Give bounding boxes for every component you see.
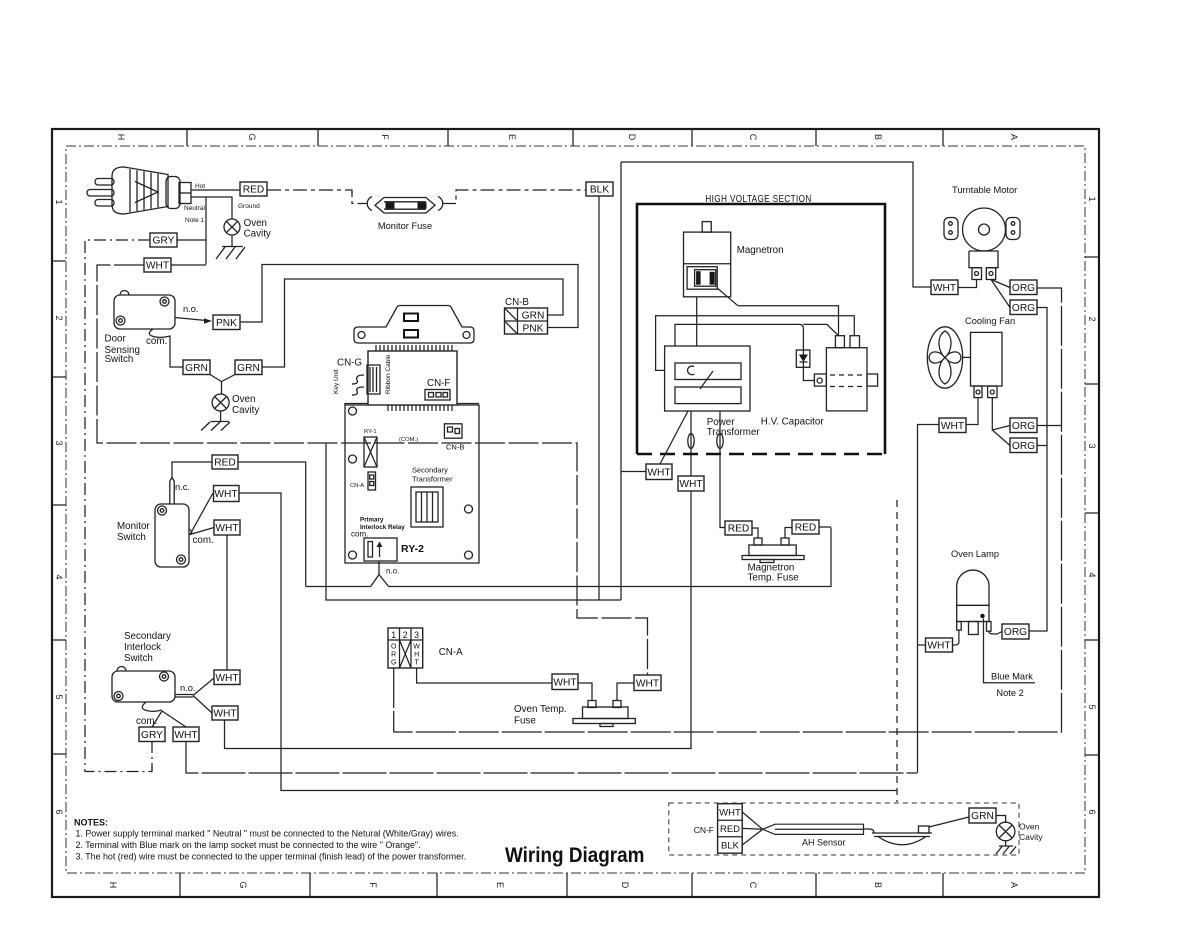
svg-text:(COM.): (COM.) [399,437,418,443]
wire: white rail fan/lamp down to bottom [918,425,940,774]
wire: ground lead from plug [191,197,232,219]
main control PCB [345,404,479,564]
grommet on red lead [717,434,723,449]
svg-text:Cavity: Cavity [232,405,259,416]
svg-text:4: 4 [1087,572,1097,577]
cooling fan M2 [927,316,1015,398]
svg-text:H.V. Capacitor: H.V. Capacitor [761,417,825,428]
svg-text:W: W [413,644,420,651]
svg-text:WHT: WHT [679,479,702,490]
svg-text:Cavity: Cavity [1019,832,1043,842]
svg-text:Transformer: Transformer [707,427,761,438]
wire: PNK to CN-B pink row [240,265,578,328]
wire: diode to capacitor mount tab [803,367,814,380]
svg-text:D: D [620,882,630,889]
svg-text:GRY: GRY [141,730,163,741]
wire: door switch n.o. to PNK with arrow [175,304,212,324]
svg-text:5: 5 [1087,704,1097,709]
svg-text:Wiring Diagram: Wiring Diagram [505,844,644,867]
svg-text:n.o.: n.o. [180,683,196,693]
svg-text:3: 3 [54,440,64,445]
wire: bottom WHT long neutral line [186,742,917,774]
svg-text:2: 2 [54,315,64,320]
svg-text:Switch: Switch [124,653,153,664]
connector CN-A (on PCB) [350,472,376,490]
turntable motor M1 [944,185,1020,280]
power plug P1 [87,167,191,214]
wire: lamp right terminal to ORG [989,631,1002,634]
wire: monitor WHT lower to interlock WHT [226,535,228,670]
svg-text:Ribbon Cable: Ribbon Cable [385,354,392,394]
svg-text:NOTES:: NOTES: [74,818,108,828]
lamp symbol: oven cavity (door) [212,394,259,416]
wire: ORG rail (turntable2 / fan2 / lamp) [1029,308,1047,632]
svg-text:WHT: WHT [174,730,197,741]
wire: neutral drop [205,197,207,265]
svg-text:com.: com. [351,530,368,539]
svg-text:E: E [507,134,517,140]
svg-text:5: 5 [54,694,64,699]
label WHT (interlock lower) [212,706,238,720]
label GRN (right) [235,360,262,375]
svg-text:RED: RED [795,523,817,534]
relay RY-1 [364,429,377,467]
svg-text:CN-B: CN-B [446,443,464,452]
wire: interlock n.o. fan-out [175,678,214,713]
label WHT (oven temp fuse right) [634,675,661,691]
label WHT (interlock upper) [214,670,240,685]
svg-text:Oven: Oven [232,394,255,405]
svg-text:G: G [391,660,396,667]
svg-text:PNK: PNK [523,324,544,335]
svg-text:Secondary: Secondary [412,466,448,475]
label ORG (turntable 1) [1010,280,1037,295]
svg-text:GRN: GRN [185,363,208,374]
svg-text:ORG: ORG [1012,421,1035,432]
wire: WHT to neutral vertical [171,264,206,266]
magnetron temp fuse F3 [742,527,831,584]
ground symbol (top) [216,247,245,260]
svg-text:H: H [108,882,118,889]
magnetron V1 [684,222,784,297]
label PNK [213,315,240,330]
wire: monitor n.c. to RED [172,462,212,478]
grommet on white lead [688,434,694,449]
svg-text:Monitor Fuse: Monitor Fuse [378,221,432,231]
svg-text:3: 3 [1087,443,1097,448]
wire: monitor WHT upper long rail to AH box [239,493,897,791]
svg-text:Cooling Fan: Cooling Fan [965,316,1015,326]
svg-text:Primary: Primary [360,517,384,524]
svg-text:Neutral: Neutral [184,205,206,212]
svg-text:RED: RED [728,524,750,535]
svg-text:F: F [368,882,378,888]
svg-text:A: A [1009,882,1019,888]
svg-text:ORG: ORG [1012,283,1035,294]
wire: RY-2 n.o. junction [371,561,400,587]
label GRN (AH sensor) [969,808,996,823]
svg-text:6: 6 [1087,809,1097,814]
svg-text:1: 1 [1087,196,1097,201]
wire: section dashed vertical [896,500,898,802]
svg-text:n.o.: n.o. [183,304,199,314]
svg-text:CN-F: CN-F [694,825,714,835]
svg-text:Door: Door [105,334,127,345]
svg-text:ORG: ORG [1012,303,1035,314]
svg-text:RY-2: RY-2 [401,543,424,555]
label WHT (cooling fan) [939,418,966,433]
oven lamp LP1 [951,549,999,635]
svg-text:n.c.: n.c. [175,482,190,492]
wire: RED to monitor fuse [267,190,368,204]
wire: n.o. line to monitor RED rail [306,586,371,588]
svg-text:H: H [414,652,419,659]
svg-text:AH Sensor: AH Sensor [802,838,846,848]
svg-text:CN-A: CN-A [439,647,463,658]
svg-text:n.o.: n.o. [386,567,399,576]
svg-text:Blue Mark: Blue Mark [991,672,1033,682]
wire: lamp left terminal to WHT [953,630,959,645]
svg-text:Secondary: Secondary [124,631,171,642]
svg-text:1: 1 [391,630,396,640]
svg-text:CN-A: CN-A [350,483,364,489]
high voltage section enclosure [637,193,885,454]
wire: sensor pan to GRN [929,817,969,827]
ribbon pins upper comb [376,345,452,351]
wire: magnetron filament to capacitor terminal 1 [717,288,838,336]
wire: CN-F fan-in to sensor [742,812,763,845]
svg-text:BLK: BLK [590,185,609,196]
wire: GRN chain to CN-B green row [262,279,563,367]
svg-text:WHT: WHT [214,489,237,500]
svg-text:Oven Temp.: Oven Temp. [514,704,567,715]
label WHT (monitor lower) [214,520,240,535]
svg-text:Note 1: Note 1 [185,217,205,224]
svg-text:Turntable Motor: Turntable Motor [952,185,1017,195]
svg-text:com.: com. [146,336,167,347]
svg-text:GRN: GRN [971,811,994,822]
diode D1 [796,350,810,367]
label WHT (oven temp fuse left) [552,674,578,690]
svg-text:CN-B: CN-B [505,297,529,308]
H.V. capacitor C1 [761,336,878,428]
wire: HV winding to capacitor terminal 2 [656,316,855,371]
wire: interlock lower WHT to transformer primary [225,411,692,749]
label ORG (oven lamp) [1002,624,1029,639]
ground symbol (AH) [996,841,1016,854]
svg-text:RED: RED [720,824,740,835]
keyboard PCB [368,351,457,405]
svg-text:2. Terminal with Blue mark on: 2. Terminal with Blue mark on the lamp s… [76,840,421,850]
svg-text:D: D [627,134,637,141]
secondary interlock switch S3 [112,631,175,702]
svg-text:ORG: ORG [1012,441,1035,452]
svg-text:4: 4 [54,574,64,579]
wire: fan terminals [966,398,1010,446]
svg-text:C: C [748,134,758,141]
wire: door switch com hook down [146,329,183,367]
svg-text:3. The hot (red) wire must be: 3. The hot (red) wire must be connected … [76,852,467,862]
label WHT (monitor upper) [214,486,240,502]
connector CN-A (wire table) [388,628,463,668]
svg-text:WHT: WHT [719,808,741,819]
svg-text:Transformer: Transformer [412,475,453,484]
label RED (hot wire) [240,182,267,196]
ground symbol (door) [201,422,230,431]
svg-text:CN-G: CN-G [337,358,362,369]
svg-text:Oven: Oven [1019,822,1040,832]
svg-text:Ground: Ground [238,203,260,210]
blue mark leader and note [984,619,1036,699]
svg-text:HIGH VOLTAGE SECTION: HIGH VOLTAGE SECTION [705,193,811,204]
wire: GRY to neutral vertical [177,239,206,241]
wire: transformer top to diode and terminal 1 [675,324,839,350]
svg-text:WHT: WHT [215,673,238,684]
wire: transformer finish lead diagonal to WHT [660,411,688,464]
label WHT (transformer finish) [646,464,672,480]
wire: fan ORG1 to ORG rail [1037,425,1062,427]
svg-text:G: G [247,133,257,140]
wire: hot lead plug to RED [191,189,240,191]
svg-text:T: T [414,660,419,667]
label GRN (left) [183,360,210,375]
wire: fan ORG2 tap [1037,445,1047,447]
lamp symbol: oven cavity (AH) [996,822,1043,843]
label GRY (top) [150,233,177,247]
svg-text:3: 3 [414,630,419,640]
svg-text:C: C [748,882,758,889]
svg-text:WHT: WHT [941,421,964,432]
svg-text:A: A [1009,134,1019,140]
svg-text:CN-F: CN-F [427,378,450,389]
label WHT (transformer primary) [678,476,704,491]
svg-text:Oven: Oven [244,218,267,229]
svg-text:WHT: WHT [927,641,950,652]
svg-text:F: F [380,134,390,140]
wire: WHT finish to top rail [621,162,931,600]
svg-text:com.: com. [193,535,214,546]
wire: CN-A pin1 ORG line to right side [394,288,1062,732]
svg-text:Key Unit: Key Unit [333,369,340,394]
svg-text:PNK: PNK [216,318,237,329]
svg-text:WHT: WHT [146,261,169,272]
svg-text:WHT: WHT [553,678,576,689]
svg-text:2: 2 [403,630,408,640]
notes text [74,818,466,862]
wire: RED rail down to n.o. line [238,462,306,587]
wire: interlock com fan-out [136,702,186,727]
wire: GRN junction V to lamp [210,375,235,395]
svg-text:B: B [873,882,883,888]
wire: n.o. line to magnetron temp fuse [389,528,831,587]
svg-text:H: H [116,134,126,141]
svg-text:Cavity: Cavity [244,229,271,240]
svg-text:GRN: GRN [522,311,545,322]
svg-text:RED: RED [243,185,265,196]
wire: magnetron to transformer [696,297,698,346]
door sensing switch S1 [105,291,176,365]
svg-text:R: R [391,652,396,659]
ribbon pins lower comb [388,405,452,411]
svg-text:E: E [495,882,505,888]
svg-text:Magnetron: Magnetron [737,245,784,256]
svg-text:6: 6 [54,809,64,814]
svg-text:ORG: ORG [1004,627,1027,638]
svg-text:WHT: WHT [213,709,236,720]
svg-text:WHT: WHT [636,679,659,690]
connector CN-B (wire table) [505,297,548,335]
wire: GRN to cavity lamp [996,816,1006,823]
relay RY-2 primary interlock [351,517,424,562]
svg-text:RY-1: RY-1 [364,429,377,435]
wire: BLK rail down [598,196,600,600]
label RED (monitor) [212,455,238,469]
wire: transformer primary red lead [720,411,725,528]
svg-text:1: 1 [54,199,64,204]
svg-text:com.: com. [136,716,157,727]
svg-text:Oven Lamp: Oven Lamp [951,549,999,559]
wire: GRY left rail down to bottom [85,240,152,772]
label GRY (bottom) [139,727,165,742]
wire: CN-A pin3 to oven temp fuse WHT [417,668,552,683]
svg-text:WHT: WHT [933,283,956,294]
wire: monitor com fan-out [189,493,214,546]
connector CN-B (on PCB) [444,424,464,452]
connector CN-G [333,354,392,395]
wire: branch to RY-2 com rail [326,443,621,600]
title Wiring Diagram [505,844,644,867]
svg-text:Switch: Switch [117,532,146,543]
label ORG (cooling fan 1) [1010,418,1037,433]
label WHT (oven lamp) [926,638,953,652]
svg-text:WHT: WHT [215,523,238,534]
svg-text:BLK: BLK [721,841,740,852]
label WHT (top) [144,258,171,272]
svg-text:Hot: Hot [195,183,205,190]
oven temp fuse F2 [514,683,635,727]
svg-text:Switch: Switch [105,354,134,365]
svg-text:Interlock: Interlock [124,642,161,653]
svg-text:GRY: GRY [153,236,175,247]
wire: WHT neutral rail to oven temp fuse [97,265,648,675]
svg-text:G: G [238,881,248,888]
svg-text:O: O [391,644,397,651]
wire: lamp to ground [231,235,233,247]
AH sensor probe [763,824,932,847]
lamp symbol: oven cavity (top) [224,218,271,240]
monitor fuse F1 [367,197,443,232]
svg-text:Monitor: Monitor [117,521,150,532]
connector CN-F (keyboard) [425,378,450,400]
wire: turntable terminals [958,280,1010,308]
keyboard unit bracket [354,306,474,344]
svg-text:Temp. Fuse: Temp. Fuse [748,573,800,584]
label WHT (bottom) [173,727,199,742]
AH sensor dashed enclosure [669,803,1019,855]
connector CN-F (AH sensor) [694,804,743,854]
power transformer T1 [665,346,761,438]
secondary transformer T2 [411,466,453,528]
svg-text:1. Power supply terminal mark: 1. Power supply terminal marked " Neutra… [76,829,459,839]
label RED (magnetron fuse left) [725,521,752,535]
svg-text:B: B [873,134,883,140]
wire: monitor fuse to BLK [442,190,586,204]
svg-text:GRN: GRN [237,363,260,374]
label ORG (cooling fan 2) [1010,438,1037,453]
wire: lamp to ground (door) [220,411,222,422]
svg-text:2: 2 [1087,316,1097,321]
label WHT (turntable) [931,280,958,295]
label RED (magnetron fuse right) [792,520,819,534]
svg-text:WHT: WHT [647,468,670,479]
monitor switch S2 [117,478,190,568]
svg-text:Fuse: Fuse [514,716,536,727]
svg-text:Note 2: Note 2 [996,688,1023,698]
label BLK [586,182,613,196]
svg-text:RED: RED [214,458,236,469]
label ORG (turntable 2) [1010,300,1037,315]
